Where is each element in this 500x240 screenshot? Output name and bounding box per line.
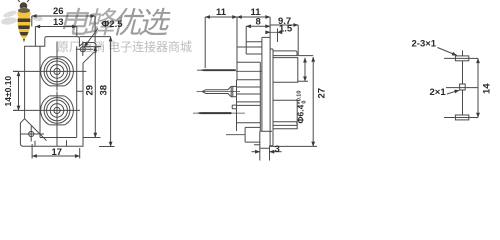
under flange line [260,130,272,132]
bottom pin center lines [444,90,478,118]
flange hole center line [226,134,245,136]
svg-text:2×1: 2×1 [430,87,447,98]
needle (middle pin) [202,86,231,96]
top pin center lines [444,50,478,58]
bottom barrel lines [237,102,261,123]
needle center line [197,91,241,93]
dim 14 right [477,58,479,117]
dim 27 [312,57,314,146]
phi2.5 leader [84,29,98,47]
dim 3 bottom [252,151,260,153]
bottom jack circles [41,96,74,125]
svg-text:3: 3 [275,144,280,155]
svg-text:2-3×1: 2-3×1 [412,39,437,50]
dim 14+-0.10 left [18,71,20,110]
svg-text:11: 11 [216,7,227,18]
svg-text:26: 26 [53,6,64,17]
bee logo body [18,0,31,43]
inner boss bottom edge [40,137,77,139]
svg-text:Φ2.5: Φ2.5 [102,19,124,30]
svg-text:17: 17 [52,147,63,158]
svg-text:14±0.10: 14±0.10 [3,76,13,107]
lower front box [245,127,260,144]
top pin 3x1 [455,56,468,61]
watermark small text 原厂直销 电子连接器商城 [57,39,192,54]
dim 11 left [205,16,237,18]
dim phi6.4 [304,58,306,82]
body block top [273,58,298,83]
hole BL crosshair [21,126,45,142]
bottom tab stub lines [35,140,67,146]
dim 29 line [94,46,96,137]
mounting hole bottom-left [29,131,34,136]
mid front lines [237,80,261,131]
top collar steps [237,26,262,54]
dim 9.7 [270,24,298,26]
svg-text:14: 14 [482,83,493,94]
bottom jack front step box [232,105,236,109]
leader 2-3x1 [438,48,457,56]
dim 8 [246,25,270,27]
top jack center line [197,70,262,71]
washer column [269,49,273,146]
middle pin 2x1 [460,84,466,90]
bottom jack center line [193,112,245,114]
bottom pin bar (filled) [200,112,232,114]
top ear tab behind flange [273,51,297,56]
svg-text:27: 27 [317,88,328,99]
svg-text:1.5: 1.5 [279,23,293,34]
svg-text:38: 38 [99,85,110,96]
dim 38 line [110,37,112,147]
needle washer [231,86,236,96]
watermark big text 电蜂优选 [58,7,171,40]
top jack crosshair [13,42,86,91]
bottom ear tab behind flange [273,122,297,126]
svg-text:8: 8 [256,16,261,27]
svg-text:Φ6.4: Φ6.4 [296,104,306,123]
bottom jack crosshair [13,92,80,147]
svg-text:29: 29 [85,85,96,96]
barrel front face / 11 ext [236,17,238,80]
dim 17 line [32,155,80,157]
dim 1.5 [266,31,271,33]
top pin bar (filled) [204,69,236,71]
svg-text:13: 13 [53,17,64,28]
top jack circles [41,57,74,86]
plate mid seam right [77,90,83,92]
hole TR crosshair [76,42,94,57]
dim 11 right [237,16,270,18]
middle pin center line [446,61,478,88]
pins below flange [260,131,270,160]
body block bottom [273,100,297,128]
dim 26 line [32,15,95,17]
leader 2x1 [447,90,459,94]
bottom-left chamfer crease [25,119,47,141]
flange column [262,17,270,146]
inner boss left edge [39,46,41,137]
inner boss right edge [76,46,78,137]
dim 13 line [35,26,76,28]
bottom pin 3x1 [455,115,468,120]
svg-text:原厂直销 电子连接器商城: 原厂直销 电子连接器商城 [57,39,192,54]
plate outline [20,37,96,147]
svg-text:0: 0 [302,101,308,105]
mounting hole top-right [80,47,85,52]
top barrel lines [237,62,260,131]
bee logo wings [1,9,44,25]
